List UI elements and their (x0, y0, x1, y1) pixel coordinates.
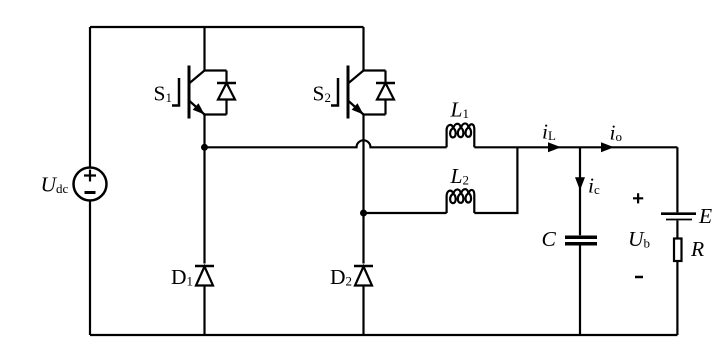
source U_dc (74, 168, 107, 201)
node A junction dot (201, 144, 208, 151)
wire S1 emitter to junction (203, 115, 205, 264)
inductor L1 (447, 123, 475, 147)
svg-text:io: io (610, 121, 622, 145)
diode D1 (195, 266, 214, 286)
svg-text:L2: L2 (450, 164, 469, 188)
wire S2 collector from top rail (362, 27, 364, 71)
svg-text:S1: S1 (154, 82, 172, 106)
svg-text:Ub: Ub (628, 227, 650, 251)
wire battery to resistor (676, 220, 678, 238)
arrow i_o (601, 142, 614, 152)
wire D1 to bottom rail (203, 286, 205, 336)
battery E (661, 214, 696, 220)
svg-text:E: E (698, 204, 712, 228)
svg-text:R: R (690, 237, 704, 261)
wire top rail (90, 26, 364, 28)
capacitor C (565, 237, 597, 244)
svg-text:D2: D2 (330, 265, 352, 289)
svg-text:L1: L1 (450, 98, 469, 122)
svg-text:Udc: Udc (41, 173, 69, 197)
wire S1 collector from top rail (203, 27, 205, 71)
wire node A to L1 with hop over S2 branch (205, 140, 447, 147)
label minus (635, 276, 643, 279)
diode D2 (354, 266, 373, 286)
wire bottom rail (90, 334, 677, 336)
wire left vertical lower (89, 201, 91, 336)
wire node B to L2 (364, 212, 447, 214)
wire L2 up to L1 output (474, 147, 517, 213)
svg-text:C: C (542, 227, 557, 251)
inductor L2 (447, 189, 475, 213)
node B junction dot (360, 210, 367, 217)
svg-text:iL: iL (542, 120, 556, 144)
svg-text:S2: S2 (313, 82, 331, 106)
wire D2 to bottom rail (362, 286, 364, 336)
wire S2 emitter vertical through crossover to junction (362, 115, 364, 264)
arrow i_c (575, 177, 585, 190)
label plus (633, 193, 643, 203)
arrow i_L (548, 142, 561, 152)
wire L1 to output node (474, 146, 677, 148)
wire resistor to bottom rail (676, 261, 678, 335)
wire capacitor branch down (579, 147, 581, 235)
wire capacitor to bottom rail (579, 246, 581, 336)
IGBT S2 (331, 66, 395, 119)
wire output corner to battery (676, 147, 678, 212)
resistor R (674, 239, 682, 262)
svg-text:D1: D1 (171, 265, 193, 289)
svg-text:ic: ic (588, 174, 600, 198)
wire left vertical upper (89, 27, 91, 168)
IGBT S1 (172, 66, 236, 119)
